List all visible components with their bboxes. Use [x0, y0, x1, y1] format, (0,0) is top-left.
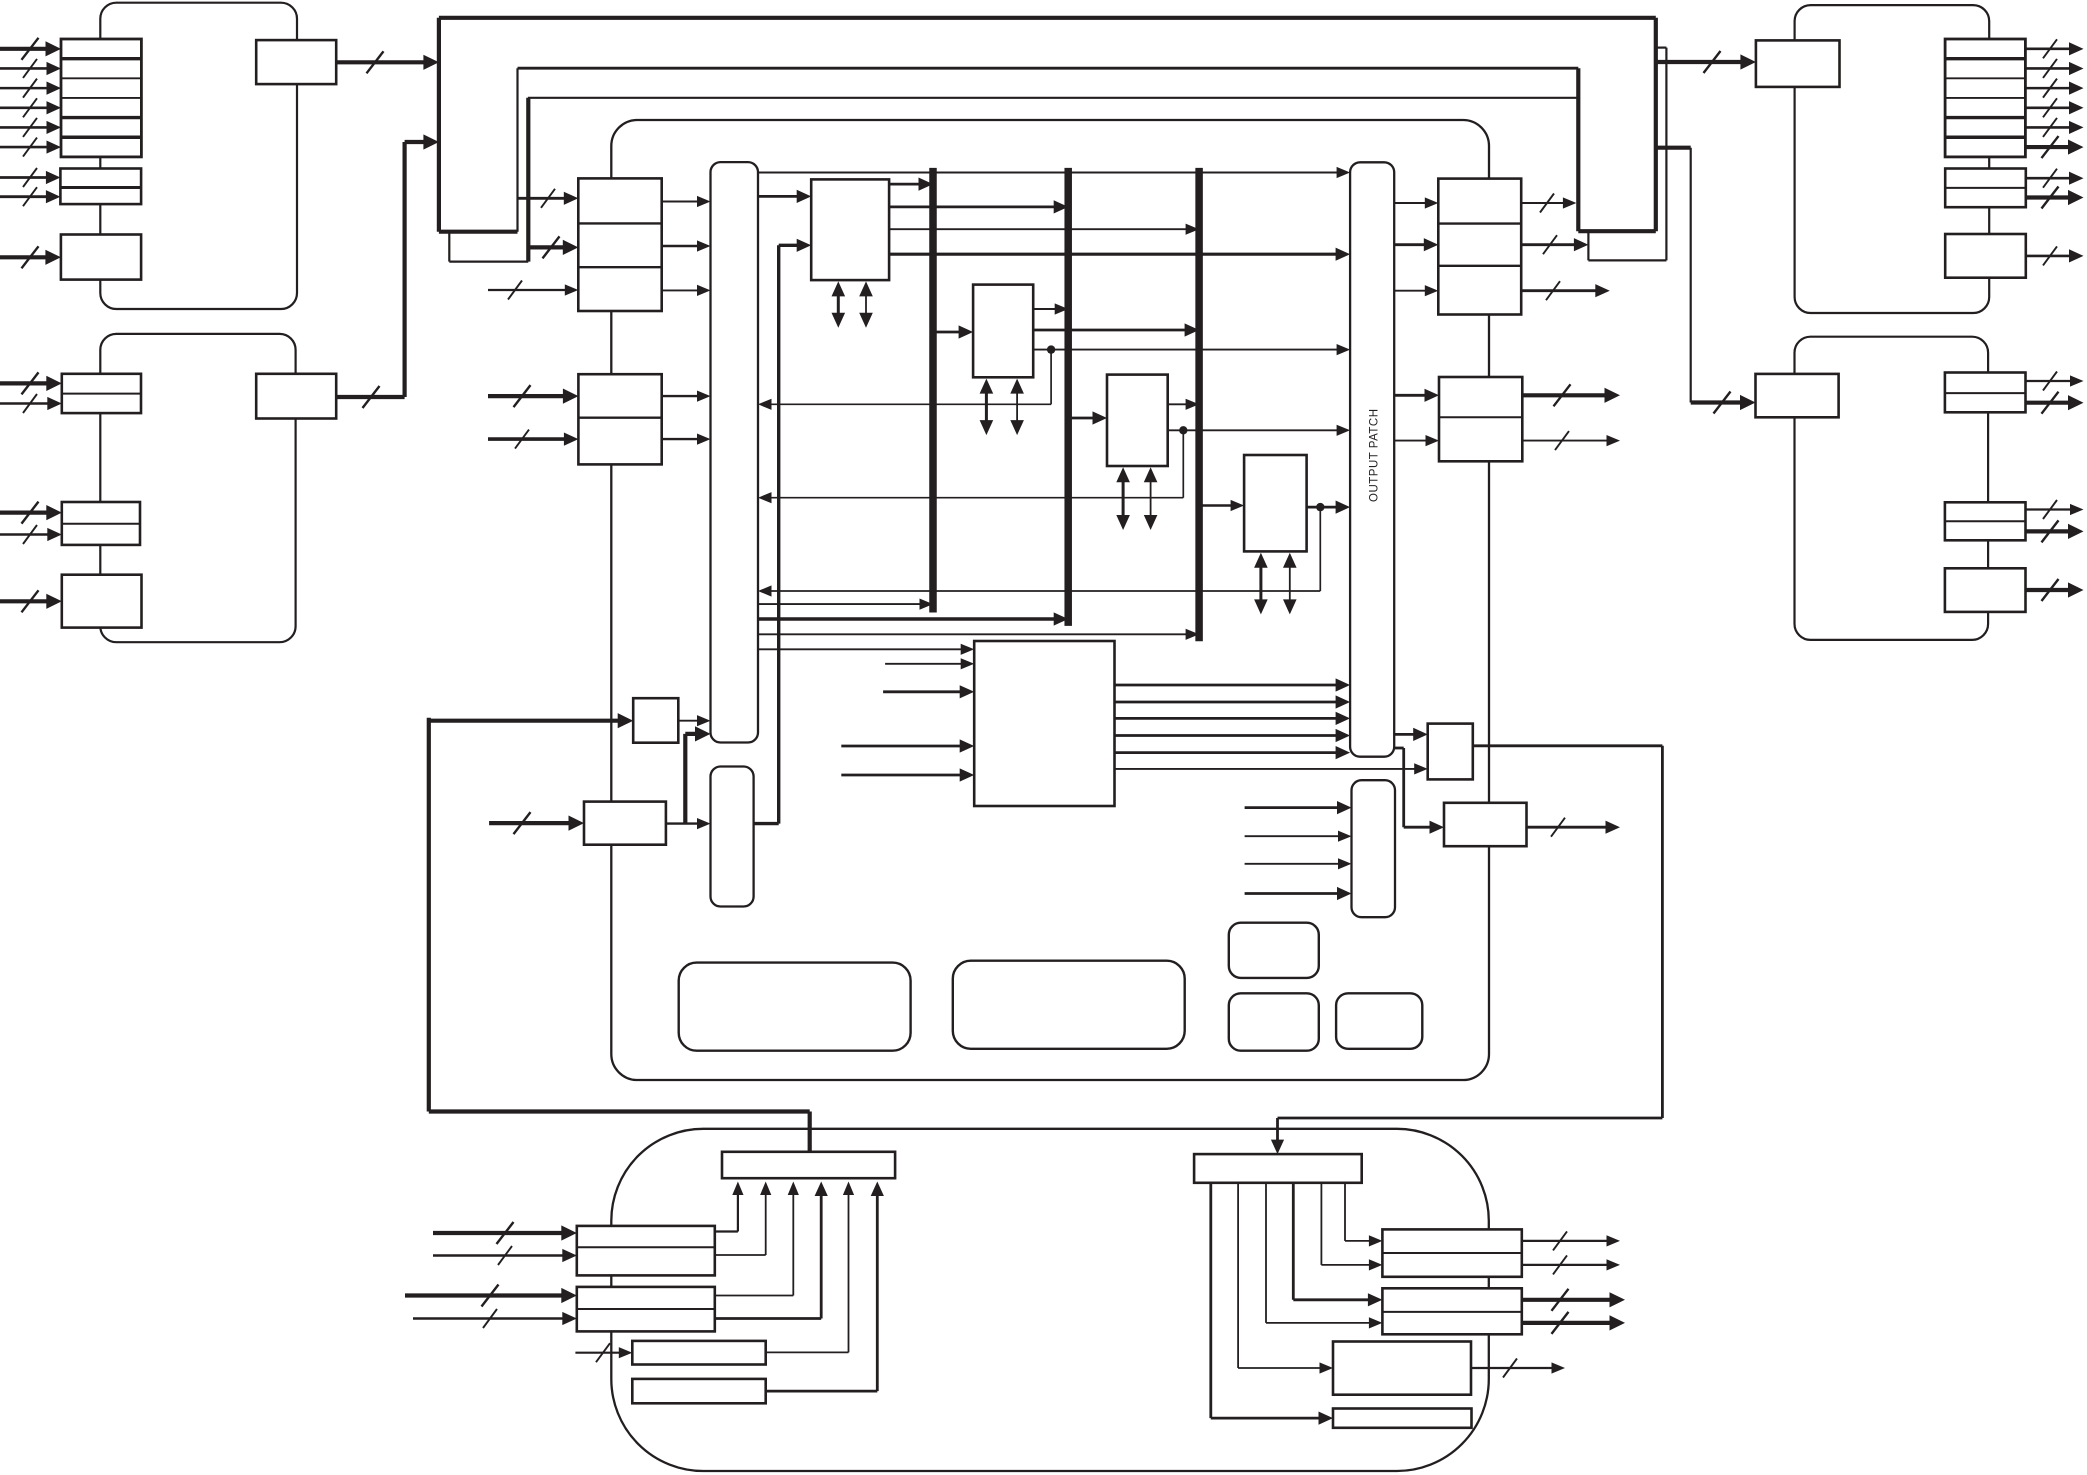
wire: E2 input 2 — [413, 1317, 568, 1320]
wire: ring output arrow to group C — [1656, 60, 1747, 64]
wire: group B input arrow 5 — [0, 599, 53, 603]
wire: right 3-row out2 — [1521, 243, 1580, 246]
wire: group A stack divider 5 — [61, 136, 141, 139]
svg-text:OUTPUT PATCH: OUTPUT PATCH — [1369, 408, 1381, 502]
wire: second feedback line left vertical — [516, 68, 518, 232]
wire: group C stack divider 5 — [1945, 136, 2025, 139]
wire: input patch to selector — [758, 648, 966, 650]
wire: right tab vertical riser — [1665, 48, 1667, 261]
wire: group C stack divider 3 — [1945, 97, 2025, 99]
wire: effect2 return drop — [1182, 430, 1184, 497]
box: 2TR in box — [584, 802, 666, 845]
box: legend box S1 — [1229, 923, 1319, 978]
wire: input 1 to lower-right bar — [1245, 806, 1343, 809]
wire: phones out to input patch — [678, 720, 702, 722]
wire: F2 output 2 — [1522, 1321, 1616, 1325]
wire: E1 out elbow 1 — [715, 1230, 738, 1232]
wire: up arrow 5 into bar E — [848, 1190, 850, 1353]
box: group D 2-row box 1 — [1945, 373, 2026, 413]
box: legend box S2 — [1229, 993, 1319, 1050]
box: lower-left small patch bar — [711, 767, 754, 907]
box: E1 2-row box — [577, 1226, 715, 1276]
wire: second feedback line right vertical — [1576, 68, 1580, 231]
wire: input to 3-row box row1 — [518, 197, 570, 200]
wire: effect1 out to output patch — [1033, 349, 1342, 351]
wire: group B middle divider — [62, 523, 140, 525]
wire: group A 2-row divider — [60, 186, 141, 189]
node: junction on effect1 output — [1047, 345, 1055, 353]
wire: effect0 out to bus1 — [889, 183, 924, 186]
box: group D single box — [1945, 568, 2026, 612]
wire: group C output arrow 1 — [2025, 48, 2074, 51]
wire: effect3 out to output patch — [1307, 506, 1342, 509]
wire: E3 out elbow — [766, 1351, 849, 1353]
wire: group C 2-row divider — [1945, 187, 2026, 189]
wire: group C output arrow 3 — [2025, 87, 2074, 90]
wire: group B input arrow 1 — [0, 381, 53, 385]
node: junction on effect3 output — [1316, 503, 1324, 511]
wire: ST out1 — [1522, 393, 1610, 397]
wire: bar F drop 1 — [1209, 1183, 1212, 1418]
wire: riser from 2TR line to input patch — [683, 734, 687, 824]
wire: E2 out elbow 2 — [715, 1317, 821, 1320]
box: F3 box — [1333, 1342, 1471, 1395]
wire: 3-row box out2 to input patch — [662, 245, 703, 247]
wire: effect2 out to bus3 — [1168, 403, 1191, 405]
box: phones box — [633, 698, 678, 743]
wire: group A stack divider 4 — [61, 116, 141, 119]
wire: group C single output arrow — [2026, 255, 2075, 258]
wire: effect3 I/O double arrow 1 — [1259, 560, 1262, 607]
wire: riser to upper effect box — [777, 245, 780, 823]
box: group B output interface box — [256, 374, 336, 419]
wire: left 2-row divider — [578, 417, 661, 419]
box: legend box L2 — [953, 961, 1185, 1049]
wire: F2 output 1 — [1522, 1298, 1616, 1302]
wire: group D box1 divider — [1945, 392, 2026, 394]
wire: effect0 out to bus3 — [889, 228, 1191, 230]
wire: effect3 return drop — [1319, 507, 1321, 591]
wire: selector output 2 to output patch — [1115, 701, 1342, 704]
box: group D outline — [1795, 337, 1989, 640]
wire: left 2-row out1 to input patch — [662, 395, 703, 397]
wire: 3-row box out3 to input patch — [662, 289, 703, 291]
wire: up arrow 3 into bar E — [792, 1190, 794, 1296]
wire: selector output 1 to output patch — [1115, 684, 1342, 687]
wire: group A stack divider 3 — [61, 97, 141, 99]
wire: effect3 I/O double arrow 2 — [1289, 560, 1291, 607]
box: INPUT PATCH bar — [711, 162, 759, 742]
wire: group B output wire up to ring — [336, 395, 404, 399]
box: meter selector bar F — [1194, 1154, 1362, 1183]
wire: third feedback line top — [528, 97, 1578, 99]
wire: right 3-row out1 — [1521, 202, 1568, 204]
wire: bar F drop 3 — [1265, 1183, 1267, 1323]
wire: group D output arrow 3 — [2026, 508, 2076, 510]
wire: right bottom box out — [1527, 826, 1612, 829]
wire: group B input arrow 2 — [0, 402, 53, 405]
wire: E3 input — [575, 1352, 624, 1354]
wire: input patch to bus1 (bottom) — [758, 603, 925, 605]
wire: group A input arrow 6 — [0, 146, 52, 149]
wire: effect2 I/O double arrow 1 — [1122, 475, 1125, 523]
wire: output patch to right 3-row row2 — [1394, 243, 1429, 246]
wire: effect1 return drop — [1050, 350, 1052, 405]
box: F2 2-row box — [1382, 1288, 1521, 1334]
box: group B single box — [62, 575, 142, 628]
bus 2 — [1064, 168, 1072, 626]
box: monitor selector box — [974, 641, 1114, 806]
wire: group A stack divider 2 — [61, 77, 141, 79]
wire: group A output arrow to top ring — [336, 60, 429, 64]
wire: group B input arrow 3 — [0, 510, 53, 514]
wire: selector thin output to ST meter box — [1115, 768, 1420, 770]
wire: group A single input arrow — [0, 255, 52, 259]
wire: jumper top right — [1656, 46, 1667, 48]
wire: effect0 out to bus2 — [889, 205, 1059, 208]
box: group C output stack (6 rows) — [1945, 39, 2025, 157]
wire: branch to group D vertical — [1690, 148, 1692, 403]
bus 3 — [1195, 168, 1203, 641]
wire: F1 output 1 — [1522, 1240, 1612, 1242]
box: right 3-row box — [1438, 179, 1521, 315]
wire: output patch to right 3-row row1 — [1394, 202, 1430, 204]
wire: bus1 into effect box 1 — [933, 331, 964, 334]
wire: right 3-row divider 2 — [1438, 265, 1521, 267]
wire: branch to group D horizontal — [1656, 146, 1691, 150]
wire: E1 out elbow 2 — [715, 1254, 766, 1256]
wire: selector input 2 — [885, 663, 966, 665]
wire: input patch to bus3 (bottom) — [758, 633, 1191, 635]
box: E4 box — [632, 1379, 765, 1403]
wire: effect2 out to output patch — [1168, 429, 1342, 431]
wire: monitor wire into phones box — [429, 719, 624, 723]
wire: up arrow 6 into bar E — [876, 1190, 879, 1391]
wire: third feedback left vertical — [526, 98, 530, 262]
wire: top outer feedback rect left edge — [437, 18, 441, 232]
box: group A 2-row box — [60, 169, 141, 205]
wire: monitor wire from selector bar to phones — [427, 718, 431, 1112]
wire: F2 divider — [1382, 1311, 1521, 1313]
box: left 2-row box — [578, 374, 661, 464]
box: OUTPUT PATCH bar — [1350, 162, 1394, 756]
wire: output patch elbow to bottom box — [1394, 747, 1404, 750]
wire: output patch to ST row2 — [1394, 440, 1431, 442]
wire: output patch to meta box — [1394, 733, 1419, 736]
wire: return line 1 into input patch — [766, 403, 1051, 405]
wire: effect2 I/O double arrow 2 — [1150, 475, 1152, 523]
wire: up arrow 1 into bar E — [737, 1190, 739, 1232]
wire: group D output arrow 4 — [2026, 529, 2075, 533]
wire: group C output arrow 2 — [2025, 67, 2074, 70]
wire: effect0 I/O double arrow 1 — [837, 289, 840, 320]
box: effect box 3 — [1244, 455, 1307, 551]
box: group A output interface box — [256, 40, 336, 84]
wire: effect0 out to output patch — [889, 253, 1341, 256]
wire: group C output arrow 4 — [2025, 106, 2074, 109]
box: effect box 0 — [811, 179, 889, 280]
wire: top outer feedback rect top edge — [439, 16, 1656, 20]
box: right ST 2-row box — [1439, 377, 1522, 461]
wire: 2TR out to small patch bar — [666, 822, 703, 824]
box: group C single box — [1945, 234, 2026, 278]
wire: bus3 into effect box 3 — [1199, 504, 1236, 506]
wire: small bar out to riser — [754, 822, 779, 825]
box: E2 2-row box — [577, 1287, 715, 1332]
wire: effect1 I/O double arrow 2 — [1016, 386, 1018, 428]
wire: input to left 2-row row2 — [488, 437, 570, 441]
box: group D input box — [1756, 374, 1839, 417]
wire: group D output arrow 1 — [2026, 380, 2076, 382]
box: group C 2-row box — [1945, 169, 2026, 208]
wire: 3-row box out1 to input patch — [662, 201, 703, 203]
wire: effect0 I/O double arrow 2 — [865, 289, 867, 320]
wire: output patch to right 3-row row3 — [1394, 290, 1430, 292]
box: group B middle 2-row box — [62, 502, 140, 545]
wire: bar F drop 4 — [1292, 1183, 1295, 1300]
wire: right 3-row out3 — [1521, 289, 1601, 292]
wire: group D single output arrow — [2026, 588, 2075, 592]
wire: output patch to ST row1 — [1394, 394, 1430, 397]
wire: selector output 5 to output patch — [1115, 751, 1342, 754]
wire: input 2 to lower-right bar — [1245, 835, 1344, 837]
wire: selector input 4 — [841, 745, 965, 748]
box: central console outline — [611, 120, 1489, 1080]
box: bottom monitor section outline — [611, 1129, 1489, 1471]
wire: group C output arrow 5 — [2025, 126, 2074, 129]
wire: group D output arrow 2 — [2026, 401, 2075, 405]
wire: F1 output 2 — [1522, 1264, 1612, 1266]
wire: input 4 to lower-right bar — [1245, 892, 1343, 895]
wire: right 3-row divider 1 — [1438, 222, 1521, 224]
wire: group A input arrow 3 — [0, 87, 52, 90]
box: group B 2-row box — [62, 374, 141, 413]
wire: input to left 2-row row1 — [488, 394, 569, 398]
wire: selector output 4 to output patch — [1115, 734, 1342, 737]
box: group C outline — [1795, 5, 1990, 313]
wire: group A 2-row input arrow 1 — [0, 176, 52, 179]
wire: return line 3 into input patch — [766, 590, 1320, 592]
box: effect box 2 — [1107, 375, 1168, 466]
wire: F1 divider — [1382, 1252, 1521, 1254]
box: group A input stack (6 rows) — [61, 39, 141, 157]
wire: E4 out elbow — [766, 1390, 878, 1393]
wire: group A input arrow 2 — [0, 67, 52, 70]
wire: bar F drop 6 — [1344, 1183, 1346, 1241]
wire: meta out to bottom-right bar — [1473, 744, 1663, 747]
wire: group A input arrow 5 — [0, 126, 52, 129]
wire: group A stack divider 1 — [61, 57, 141, 60]
box: effect box 1 — [973, 285, 1033, 378]
wire: bar F drop 2 — [1237, 1183, 1239, 1368]
wire: E1 input 1 — [433, 1231, 568, 1235]
wire: group B input arrow 4 — [0, 533, 53, 536]
box: group D 2-row box 2 — [1945, 502, 2026, 540]
wire: left tab below outer rect — [448, 232, 450, 262]
wire: input 3 to lower-right bar — [1245, 863, 1344, 865]
wire: left 2-row out2 to input patch — [662, 438, 703, 440]
wire: left 3-row divider 2 — [578, 266, 661, 268]
box: legend box S3 — [1336, 993, 1422, 1049]
wire: group C stack divider 2 — [1945, 77, 2025, 79]
wire: E2 divider — [577, 1308, 715, 1310]
wire: left 3-row divider 1 — [578, 222, 661, 224]
wire: effect1 out to bus2 — [1033, 308, 1060, 310]
box: group B outline — [100, 334, 295, 642]
box: E3 box — [632, 1341, 765, 1365]
wire: group A input arrow 4 — [0, 106, 52, 109]
wire: line input patch to output patch (top) — [758, 172, 1342, 174]
wire: E2 input 1 — [405, 1293, 568, 1297]
wire: group C output arrow 6 — [2025, 145, 2074, 149]
wire: group A input arrow 1 — [0, 47, 52, 51]
wire: arrow into group D — [1691, 400, 1747, 404]
wire: group A 2-row input arrow 2 — [0, 195, 52, 198]
wire: top outer feedback rect right edge — [1654, 18, 1658, 231]
wire: right tab below outer rect — [1587, 231, 1589, 260]
box: right bottom box — [1444, 803, 1527, 846]
wire: group C stack divider 4 — [1945, 116, 2025, 119]
box: meta (ST out) box — [1428, 724, 1473, 780]
wire: bus2 into effect box 2 — [1068, 417, 1098, 420]
wire: input patch to effect box 0 — [758, 195, 803, 198]
wire: second feedback line top — [518, 67, 1579, 70]
wire: F3 output — [1471, 1367, 1557, 1369]
wire: group C 2-row output arrow 2 — [2026, 195, 2074, 199]
wire: input to 3-row box row3 — [488, 289, 570, 291]
box: legend box L1 — [679, 963, 911, 1051]
wire: effect1 out to bus3 — [1033, 329, 1190, 332]
wire: group D box2 divider — [1945, 520, 2026, 522]
box: group A single box — [61, 235, 141, 280]
wire: selector output 3 to output patch — [1115, 717, 1342, 720]
box: F4 box — [1333, 1409, 1472, 1428]
wire: group C stack divider 1 — [1945, 57, 2025, 60]
wire: return line 2 into input patch — [766, 497, 1183, 499]
wire: selector input 3 — [883, 690, 965, 693]
wire: group B 2-row divider — [62, 393, 141, 395]
node: junction on effect2 output — [1179, 426, 1187, 434]
wire: E1 divider — [577, 1246, 715, 1248]
wire: selector input 5 — [841, 774, 965, 777]
wire: outer rect bottom foot left — [439, 230, 518, 234]
box: F1 2-row box — [1382, 1229, 1521, 1276]
wire: input to 3-row box row2 — [528, 245, 569, 249]
wire: effect1 I/O double arrow 1 — [985, 386, 988, 428]
wire: input to 2TR box — [489, 821, 575, 825]
wire: E2 out elbow 1 — [715, 1295, 794, 1297]
box: group A outline — [100, 3, 297, 309]
box: monitor selector bar E — [722, 1152, 895, 1178]
wire: E1 input 2 — [433, 1254, 568, 1257]
wire: up arrow 4 into bar E — [820, 1190, 823, 1318]
wire: ST out2 — [1522, 440, 1612, 442]
wire: right ST divider — [1439, 416, 1522, 418]
box: group C input box — [1756, 40, 1840, 87]
bus 1 — [929, 168, 937, 613]
wire: group C 2-row output arrow 1 — [2026, 177, 2075, 180]
box: lower-right small patch bar — [1352, 780, 1396, 917]
wire: bar F drop 5 — [1320, 1183, 1322, 1265]
box: left 3-row box — [578, 178, 661, 311]
wire: input patch to bus2 (bottom) — [758, 617, 1060, 621]
wire: up arrow 2 into bar E — [765, 1190, 767, 1255]
wire: outer rect bottom foot right — [1578, 229, 1656, 233]
